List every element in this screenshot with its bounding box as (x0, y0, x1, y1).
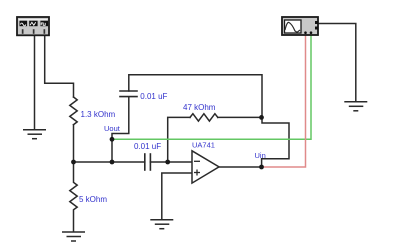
svg-text:47 kOhm: 47 kOhm (183, 103, 216, 112)
svg-text:0.01 uF: 0.01 uF (140, 92, 167, 101)
svg-text:5 kOhm: 5 kOhm (79, 195, 107, 204)
svg-text:Uin: Uin (255, 151, 266, 160)
svg-text:1.3 kOhm: 1.3 kOhm (81, 110, 116, 119)
svg-text:UA741: UA741 (192, 141, 215, 150)
svg-text:0.01 uF: 0.01 uF (134, 142, 161, 151)
svg-text:Uout: Uout (104, 124, 121, 133)
